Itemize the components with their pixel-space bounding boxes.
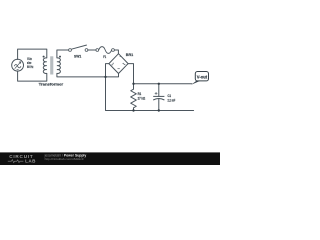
transformer T1 — [43, 58, 60, 74]
wire F1 to bridge top vertex — [114, 50, 118, 54]
svg-text:LAB: LAB — [25, 159, 36, 164]
wire junction to bridge bottom vertex — [106, 74, 119, 77]
wire transformer secondary top to SW1 — [57, 50, 69, 58]
wire top rail to V-out — [134, 83, 192, 85]
svg-text:SW1: SW1 — [74, 53, 82, 58]
wire C1 top lead — [158, 84, 160, 97]
switch SW1 — [69, 45, 88, 51]
transformer core — [50, 56, 53, 74]
wire bridge right vertex to top rail — [128, 64, 133, 84]
svg-text:V-out: V-out — [197, 75, 208, 80]
label C1 2.2 mF — [168, 93, 176, 102]
svg-text:F1: F1 — [103, 54, 106, 59]
svg-text:27 kΩ: 27 kΩ — [138, 96, 146, 101]
label R1 27 kOhm — [138, 91, 146, 101]
wire transformer secondary bottom to junction — [57, 73, 106, 77]
footer bar — [0, 152, 220, 165]
capacitor C1 — [153, 92, 164, 100]
footer logo CIRCUIT LAB — [9, 154, 36, 164]
fuse F1 — [96, 47, 115, 54]
voltage source V-in — [12, 59, 24, 71]
bridge rectifier BR1 — [109, 54, 128, 74]
wire SW1 to F1 — [88, 49, 96, 51]
svg-text:+: + — [119, 55, 121, 59]
wire C1 bottom lead — [158, 99, 160, 111]
svg-text:Transformer: Transformer — [39, 82, 64, 87]
footer logo waveform — [8, 160, 24, 163]
BR1 inner polarity marks — [111, 62, 125, 68]
junction dots — [104, 76, 160, 112]
resistor R1 — [131, 84, 137, 111]
svg-text:http://circuitlab.com/c8dkkv9: http://circuitlab.com/c8dkkv9 — [45, 157, 84, 161]
svg-text:2.2 mF: 2.2 mF — [168, 97, 176, 102]
wire source bottom to transformer primary bottom — [18, 71, 47, 81]
svg-text:BR1: BR1 — [126, 52, 134, 57]
transformer phase dots — [43, 56, 45, 58]
node flag V-out — [191, 81, 200, 85]
label V-in sine 60 Hz — [27, 56, 33, 69]
wire bridge left vertex to junction to bottom rail — [106, 64, 194, 111]
wire source top to transformer primary top — [18, 49, 47, 59]
svg-text:60 Hz: 60 Hz — [27, 64, 33, 69]
